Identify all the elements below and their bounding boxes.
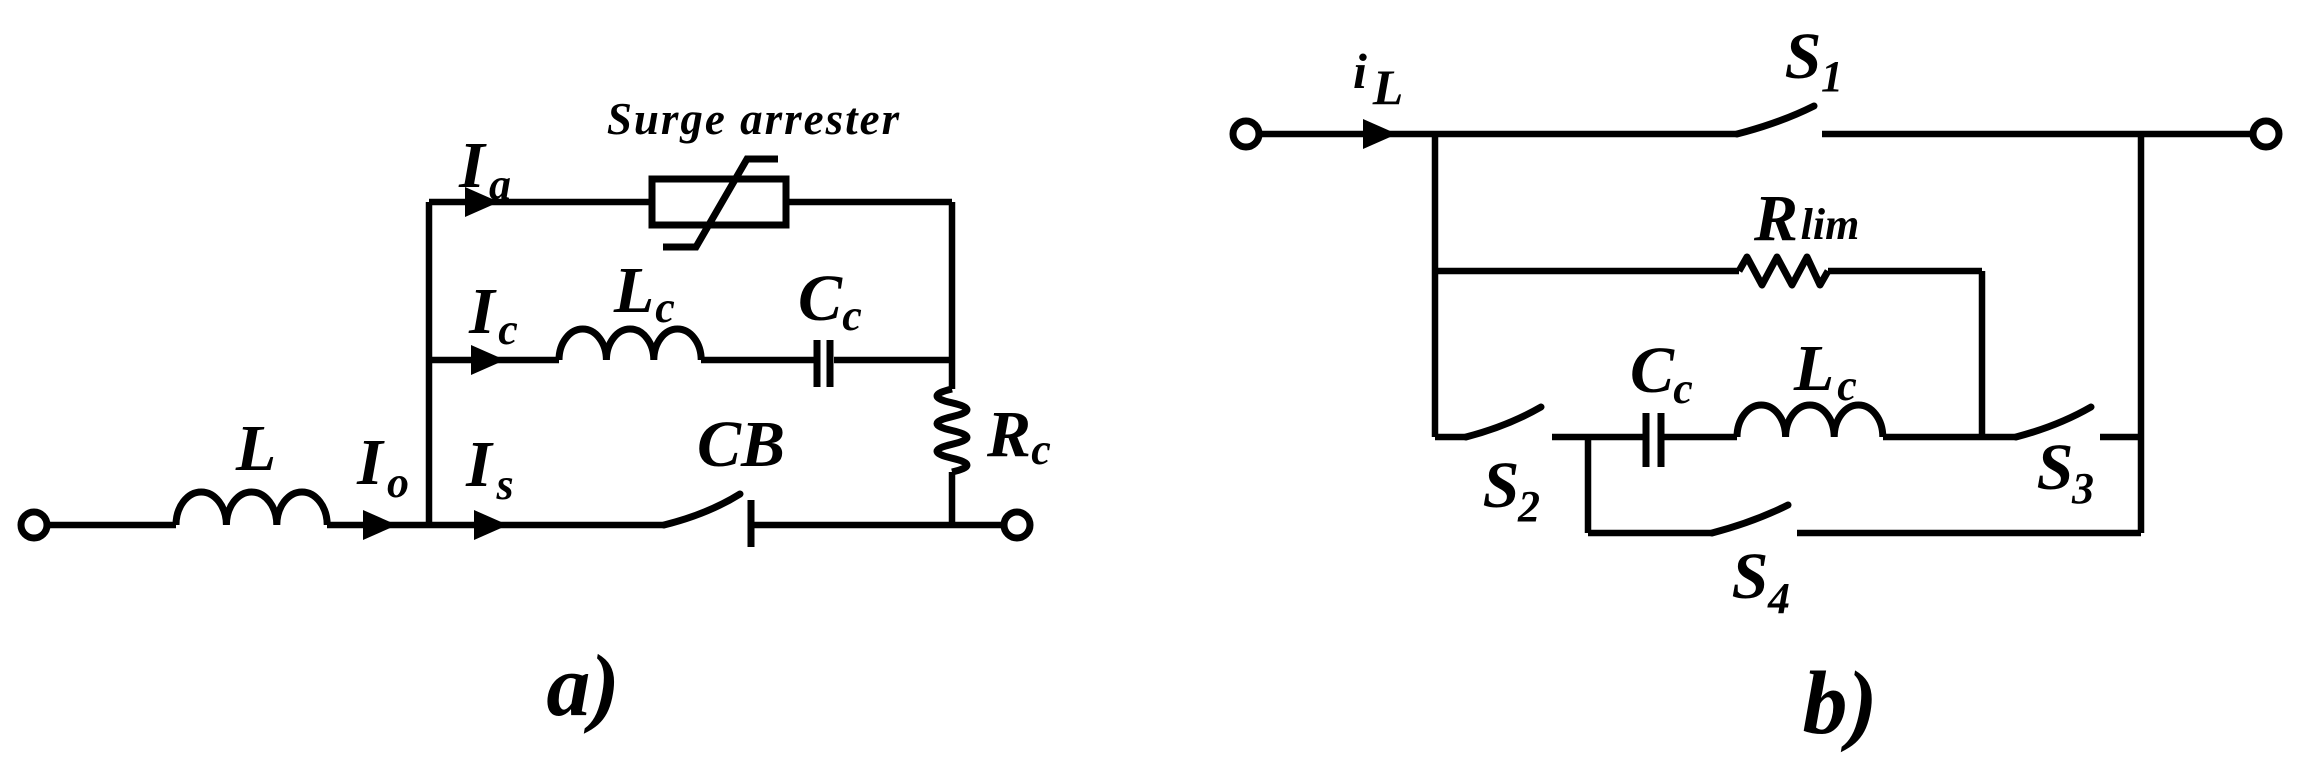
svg-text:c: c [1031,425,1051,474]
svg-text:b): b) [1803,654,1878,753]
svg-text:c: c [498,305,518,354]
svg-text:S: S [1785,20,1822,93]
wire left vertical b) [1432,134,1439,437]
svg-text:S: S [1732,540,1769,613]
switch S3 blade [2016,407,2091,437]
svg-text:I: I [458,129,487,202]
current arrow Io [363,510,397,540]
svg-text:c: c [655,283,675,332]
wire [1797,530,2141,537]
wire [1822,131,2253,138]
svg-text:I: I [465,428,494,501]
svg-text:a): a) [546,638,619,735]
inductor Lc b [1737,405,1883,437]
wire [1664,434,1737,441]
wire [1883,434,2016,441]
svg-text:L: L [613,254,654,327]
wire Rlim branch [1435,268,1739,275]
wire [949,472,956,525]
terminal output b) [2253,121,2279,147]
svg-text:i: i [1353,43,1367,99]
resistor Rc [937,389,967,472]
switch S1 blade [1737,106,1814,134]
svg-text:c: c [1837,361,1857,410]
wire [327,522,429,529]
svg-text:R: R [1753,182,1798,255]
terminal input b) [1233,121,1259,147]
wire [1552,434,1643,441]
svg-text:c: c [842,291,862,340]
wire Rlim right vertical [1979,271,1986,437]
svg-text:L: L [1372,59,1404,115]
svg-text:C: C [1630,334,1675,407]
wire top b) [1259,131,1737,138]
current arrow Is [474,510,508,540]
svg-text:3: 3 [2071,464,2094,513]
terminal output a) [1004,512,1030,538]
current arrow Ic [471,345,505,375]
circuit breaker CB blade [664,494,740,525]
switch S4 blade [1712,505,1788,533]
wire right vertical a) [949,202,956,389]
svg-text:s: s [495,460,513,509]
wire [834,357,952,364]
svg-text:c: c [1673,364,1693,413]
wire [47,522,176,529]
wire [701,357,815,364]
svg-text:S: S [1483,449,1520,522]
switch S2 blade [1466,407,1541,437]
circuit breaker CB contact bar [748,500,755,547]
svg-text:CB: CB [697,408,785,481]
current arrow iL [1363,119,1397,149]
svg-text:2: 2 [1517,482,1540,531]
svg-text:L: L [1793,332,1834,405]
svg-text:1: 1 [1821,52,1843,101]
surge arrester box [652,179,786,225]
wire [786,199,952,206]
svg-text:L: L [235,412,276,485]
wire S4 left vertical [1585,437,1592,533]
svg-text:lim: lim [1801,200,1860,249]
svg-text:4: 4 [1767,574,1790,623]
terminal input a) [21,512,47,538]
svg-text:a: a [489,160,511,209]
wire [751,522,1004,529]
wire right vertical b) [2138,134,2145,533]
node junction vertical wire [426,202,433,525]
wire [1588,530,1712,537]
svg-text:Surge arrester: Surge arrester [607,94,901,144]
svg-text:I: I [356,426,385,499]
wire [2100,434,2141,441]
capacitor Cc plates [817,340,830,387]
svg-text:I: I [468,275,497,348]
inductor Lc [559,329,701,360]
wire bottom branch [429,522,664,529]
svg-text:R: R [986,398,1031,471]
surge arrester slash [663,159,778,247]
inductor L [176,492,327,525]
svg-text:o: o [387,458,409,507]
wire [1828,268,1982,275]
wire middle branch [429,357,559,364]
svg-text:S: S [2037,431,2074,504]
wire [1435,434,1466,441]
svg-text:C: C [798,262,843,335]
resistor Rlim [1739,257,1828,285]
capacitor Cc b plates [1646,413,1661,467]
current arrow Ia [465,187,499,217]
wire top branch [429,199,652,206]
